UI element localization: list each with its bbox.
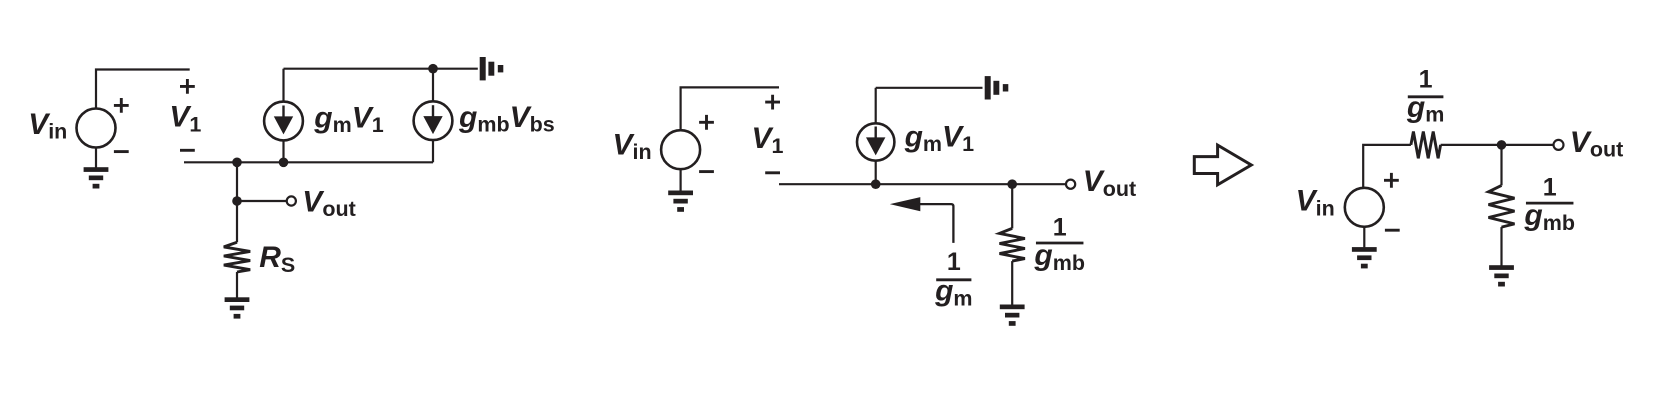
- plus sign of Vin source (left circuit): [114, 98, 129, 113]
- current source gmV1 (middle circuit): [857, 123, 894, 160]
- wire from RS to ground (left circuit): [236, 272, 238, 298]
- wire stub from Vin source bottom to ground (left circuit): [95, 147, 97, 167]
- wire gmbVbs source bottom lead (left circuit): [432, 140, 434, 162]
- current source gmV1 (left circuit): [264, 102, 303, 141]
- svg-text:1: 1: [947, 248, 961, 276]
- label 1/gmb value (right circuit): [1523, 174, 1575, 235]
- ground below RS (left circuit): [225, 297, 250, 318]
- wire bottom node (source node) left circuit: [184, 161, 433, 163]
- voltage source Vin (left circuit): [77, 109, 116, 148]
- wire gmV1 source bottom lead (left circuit): [282, 140, 284, 162]
- wire top rail to AC ground (left circuit): [284, 68, 478, 70]
- ground below Vin source (middle circuit): [668, 191, 693, 212]
- resistor 1/gmb (middle circuit): [1000, 228, 1025, 261]
- svg-text:1: 1: [1053, 214, 1067, 242]
- label Vout (right circuit): [1570, 126, 1623, 162]
- wire from Vin source top to V1 plus terminal (left circuit): [96, 70, 190, 109]
- label 1/gm resistance seen looking into node (middle circuit): [934, 248, 972, 310]
- wire from source node down to Vout tap (left circuit): [236, 162, 238, 201]
- label Vin (middle circuit input source): [613, 128, 652, 164]
- wire from 1/gm resistor to Vout terminal (right circuit): [1441, 144, 1554, 146]
- minus sign of Vin source (right circuit): [1385, 229, 1400, 232]
- open terminal Vout (right circuit): [1554, 140, 1564, 150]
- ground below 1/gmb resistor (middle circuit): [1000, 305, 1025, 326]
- label 1/gmb value (middle circuit): [1033, 214, 1085, 275]
- ground below 1/gmb resistor (right circuit): [1489, 265, 1514, 286]
- ground below Vin source (left circuit): [84, 167, 109, 188]
- wire from Vout node to resistor RS (left circuit): [236, 201, 238, 242]
- open terminal Vout (middle circuit): [1066, 180, 1075, 189]
- AC ground symbol at top rail (middle circuit): [985, 76, 1009, 99]
- ground below Vin source (right circuit): [1352, 247, 1377, 268]
- wire from Vin source top to V1 plus terminal (middle circuit): [681, 87, 779, 130]
- plus sign of Vin source (right circuit): [1384, 173, 1399, 188]
- wire bottom output node (middle circuit): [779, 183, 1066, 185]
- voltage source Vin (middle circuit): [661, 130, 700, 169]
- current source gmbVbs (left circuit): [414, 101, 453, 140]
- voltage source Vin (right circuit): [1345, 188, 1384, 227]
- wire from output node down to 1/gmb resistor (right circuit): [1500, 145, 1502, 186]
- minus sign of controlling voltage V1 (middle circuit): [765, 171, 780, 174]
- resistor RS (left circuit): [224, 242, 250, 272]
- minus sign of controlling voltage V1 (left circuit): [180, 149, 195, 152]
- wire Vout tap (left circuit): [237, 200, 287, 202]
- label gmV1 value (left circuit): [313, 101, 383, 137]
- minus sign of Vin source (left circuit): [114, 150, 129, 153]
- arrow pointing left into output node indicating 1/gm resistance (middle circuit): [890, 197, 954, 243]
- junction node at gmV1 source bottom (left circuit): [279, 158, 289, 168]
- wire stub from Vin source bottom to ground (right circuit): [1363, 227, 1365, 248]
- wire top rail to AC ground (middle circuit): [876, 87, 983, 89]
- label gmV1 value (middle circuit): [904, 120, 974, 156]
- plus sign of Vin source (middle circuit): [699, 115, 714, 130]
- junction node at 1/gmb resistor (middle circuit): [1007, 179, 1017, 189]
- wire from 1/gmb resistor to ground (middle circuit): [1011, 261, 1013, 305]
- junction node at Vout tap (left circuit): [232, 196, 242, 206]
- wire gmbVbs source top lead (left circuit): [432, 69, 434, 102]
- wire gmV1 source bottom lead (middle circuit): [875, 161, 877, 185]
- junction node at gmV1 source (middle circuit): [871, 179, 881, 189]
- svg-text:1: 1: [1543, 174, 1557, 202]
- svg-text:1: 1: [1419, 66, 1433, 94]
- wire stub from Vin source bottom to ground (middle circuit): [679, 169, 681, 191]
- label Vin (left circuit input source): [28, 108, 67, 144]
- junction node at Vout branch (left circuit): [232, 158, 242, 168]
- label Vin (right circuit input source): [1296, 185, 1335, 221]
- junction node top rail at gmbVbs source (left circuit): [428, 64, 438, 74]
- label 1/gm value above series resistor (right circuit): [1406, 66, 1444, 127]
- label RS value (left circuit): [259, 241, 295, 277]
- wire gmV1 source top lead (middle circuit): [875, 88, 877, 124]
- wire Vin source top to 1/gm resistor (right circuit): [1363, 145, 1411, 188]
- label V1 controlling voltage (middle circuit): [752, 122, 784, 158]
- junction node at 1/gmb branch (right circuit): [1497, 140, 1507, 150]
- minus sign of Vin source (middle circuit): [699, 170, 714, 173]
- block arrow (implies, between middle and right circuits): [1194, 145, 1251, 185]
- wire from 1/gmb resistor to ground (right circuit): [1500, 227, 1502, 265]
- plus sign of controlling voltage V1 (middle circuit): [765, 95, 780, 110]
- label Vout (middle circuit): [1083, 165, 1136, 201]
- open terminal Vout (left circuit): [287, 196, 296, 205]
- wire from output node to 1/gmb resistor (middle circuit): [1011, 184, 1013, 228]
- label Vout (left circuit): [302, 185, 355, 221]
- wire gmV1 source top lead (left circuit): [282, 69, 284, 102]
- label gmbVbs value (left circuit): [458, 101, 555, 137]
- resistor 1/gmb (right circuit): [1489, 185, 1515, 227]
- resistor 1/gm (right circuit): [1411, 132, 1441, 159]
- AC ground symbol at top rail (left circuit): [480, 57, 504, 80]
- plus sign of controlling voltage V1 (left circuit): [180, 79, 195, 94]
- label V1 controlling voltage (left circuit): [169, 101, 201, 137]
